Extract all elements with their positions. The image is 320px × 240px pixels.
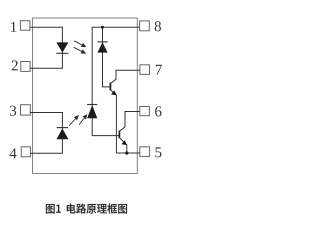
pin 3 — [21, 105, 31, 115]
wire LED1 loop pins 1-2 — [30, 27, 62, 68]
photodiode D2 — [87, 105, 97, 118]
pin label 6 — [155, 106, 161, 116]
photodiode D2 cathode bar — [87, 104, 97, 106]
caption 图1 电路原理框图 — [46, 204, 127, 214]
wire Vcc rail pin 8 to photodiode D2 and Q2 base — [92, 27, 139, 135]
light arrows channel 1 — [74, 41, 86, 53]
pin 2 — [21, 62, 30, 72]
LED D1a channel 1 — [56, 42, 68, 52]
pin 4 — [21, 147, 30, 157]
LED D2a channel 2 — [56, 128, 68, 139]
wire LED2 loop pins 3-4 — [30, 113, 62, 154]
pin label 3 — [10, 106, 16, 116]
pin 6 — [140, 107, 150, 116]
pin label 7 — [156, 65, 162, 75]
pin label 5 — [155, 147, 161, 157]
LED D2a cathode bar — [57, 127, 69, 129]
transistor Q2 — [119, 112, 139, 154]
junction dot Vcc rail — [101, 26, 104, 29]
pin 1 — [20, 21, 30, 31]
pin 8 — [140, 21, 150, 31]
pin label 8 — [155, 21, 161, 31]
wire emitter rail to pin 5 — [116, 152, 139, 154]
light arrows channel 2 — [69, 115, 87, 126]
pin label 1 — [11, 22, 16, 32]
pin 5 — [140, 147, 150, 157]
photodiode D1 — [97, 42, 107, 52]
pin label 2 — [12, 61, 18, 71]
pin label 4 — [10, 148, 17, 158]
IC package outline — [33, 18, 138, 174]
transistor Q1 — [110, 70, 139, 153]
junction dot emitter rail — [125, 151, 128, 154]
pin 7 — [140, 65, 150, 75]
LED D1a cathode bar — [56, 52, 68, 54]
wire photodiode D1 branch to Q1 base — [103, 27, 111, 87]
photodiode D1 cathode bar — [97, 41, 107, 43]
